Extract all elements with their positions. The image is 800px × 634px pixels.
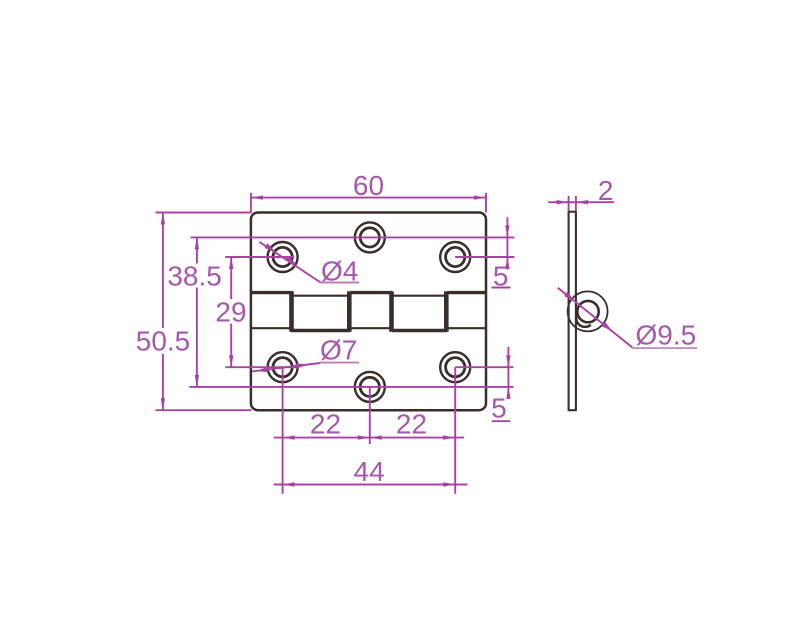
svg-text:44: 44 [354, 456, 385, 487]
hole top-left inner [273, 247, 292, 266]
dim 50.5 extension line top [156, 212, 252, 214]
hole top-left outer [268, 242, 298, 272]
side view barrel outer circle [568, 291, 608, 331]
leader Ø4 arrow lower [285, 256, 297, 265]
dim 2 extension line right [575, 196, 577, 211]
label Ø4 underline [321, 282, 360, 284]
knuckle segment 2 top edge (thin) [293, 295, 348, 297]
dim 5 bottom arrow down [506, 355, 510, 367]
knuckle segment 5 bottom edge (thin) [448, 327, 486, 329]
hole top-center inner [360, 228, 379, 247]
leader Ø9.5 arrow lower [602, 322, 613, 332]
hole bottom-center inner [360, 377, 379, 396]
label Ø7 underline [320, 362, 359, 364]
dim 60 arrow right [474, 195, 486, 199]
knuckle divider 1 [289, 291, 294, 332]
dim 38.5 arrow bottom [195, 375, 199, 387]
leader Ø7 arrow right [295, 363, 307, 369]
hole bottom-left inner [273, 358, 292, 377]
dim 29 arrow bottom [229, 355, 233, 367]
dim 2 dimension line [548, 201, 614, 203]
svg-text:60: 60 [353, 170, 384, 201]
dim 38.5 dimension line lower [196, 288, 198, 387]
dim 38.5 dimension line upper [196, 237, 198, 263]
dim 38.5 arrow top [195, 237, 199, 249]
knuckle segment 1 top edge (thick) [251, 291, 293, 294]
hole bottom-left outer [268, 352, 298, 382]
svg-text:5: 5 [491, 393, 507, 424]
bottom extension line center hole [369, 387, 371, 444]
knuckle divider 4 [444, 291, 449, 332]
dim 50.5 dimension line upper [162, 213, 164, 329]
row line through top-center holes [191, 236, 515, 238]
leader Ø7 arrow left [256, 367, 268, 373]
dim 2 arrow left [557, 200, 569, 204]
dim 2 extension line left [568, 196, 570, 211]
side view plate top cap [568, 211, 577, 213]
dim 22 dimension line [274, 437, 464, 439]
svg-text:Ø7: Ø7 [320, 335, 357, 366]
svg-text:50.5: 50.5 [136, 326, 191, 357]
dim 60 arrow left [251, 195, 263, 199]
svg-text:Ø9.5: Ø9.5 [636, 320, 697, 351]
dim 44 arrow right [443, 482, 455, 486]
knuckle segment 4 top edge (thin) [393, 295, 445, 297]
dim 44 dimension line [274, 484, 468, 486]
knuckle divider 2 [347, 291, 352, 332]
dim 5 bottom vertical line [507, 347, 509, 397]
dim 22 arrow far left [283, 435, 295, 439]
dim 60 extension line right [485, 193, 487, 213]
dim 22 arrow far right [443, 435, 455, 439]
bottom extension line left hole [282, 367, 284, 494]
label Ø9.5 underline [632, 347, 698, 349]
dim 44 arrow left [283, 482, 295, 486]
side view plate left edge [568, 212, 570, 411]
side view plate right edge [575, 212, 577, 411]
leader Ø7 line [252, 363, 320, 371]
dim 29 arrow top [229, 257, 233, 269]
hole top-center outer [355, 222, 385, 252]
row line through bottom-left hole [225, 366, 297, 368]
dim 50.5 extension line bottom [156, 409, 252, 411]
dim 29 dimension line lower [230, 324, 232, 368]
dim 22 arrow center-right-pointing [358, 435, 370, 439]
dim 50.5 arrow bottom [161, 398, 165, 410]
row line from bottom-right hole [455, 366, 513, 368]
hinge plate front view outline [251, 213, 486, 411]
dim 29 dimension line upper [230, 257, 232, 299]
leader Ø9.5 arrow upper [564, 292, 575, 302]
row line through top-left hole [225, 256, 294, 258]
side view pin circle [577, 301, 598, 322]
hole top-right outer [440, 242, 470, 272]
side view curl arc [576, 314, 591, 327]
svg-text:2: 2 [598, 175, 614, 206]
row line from top-right hole [455, 256, 514, 258]
svg-text:22: 22 [310, 409, 341, 440]
svg-text:29: 29 [215, 297, 246, 328]
row line through bottom-center holes [189, 386, 513, 388]
leader Ø9.5 line [558, 288, 633, 348]
knuckle segment 2 bottom edge (thick) [291, 329, 350, 332]
knuckle segment 3 top edge (thick) [351, 291, 393, 294]
dim 60 extension line left [250, 193, 252, 213]
bottom extension line right hole [454, 367, 456, 494]
svg-text:22: 22 [396, 409, 427, 440]
dim 5 top underline [492, 287, 511, 289]
knuckle segment 3 bottom edge (thin) [351, 327, 390, 329]
knuckle segment 1 bottom edge (thin) [251, 327, 291, 329]
leader Ø4 arrow upper [264, 243, 276, 252]
hole bottom-center outer [355, 372, 385, 402]
hole bottom-right outer [440, 352, 470, 382]
knuckle segment 5 top edge (thick) [447, 291, 486, 294]
dim 50.5 dimension line lower [162, 354, 164, 410]
dim 5 bottom arrow up [506, 387, 510, 399]
dim 5 bottom underline [492, 420, 510, 422]
dim 5 top arrow down [505, 225, 509, 237]
leader Ø4 line [259, 242, 320, 283]
side view plate bottom cap [568, 409, 577, 411]
dim 50.5 arrow top [161, 213, 165, 225]
knuckle segment 4 bottom edge (thick) [392, 329, 447, 332]
hole bottom-right inner [446, 358, 465, 377]
dim 2 arrow right [576, 200, 588, 204]
dim 60 dimension line [251, 197, 486, 199]
dim 22 arrow center-left-pointing [370, 435, 382, 439]
dim 5 top arrow up [505, 257, 509, 269]
hole top-right inner [446, 247, 465, 266]
dim 5 top vertical line [506, 217, 508, 269]
svg-text:38.5: 38.5 [167, 261, 222, 292]
knuckle divider 3 [389, 291, 394, 332]
